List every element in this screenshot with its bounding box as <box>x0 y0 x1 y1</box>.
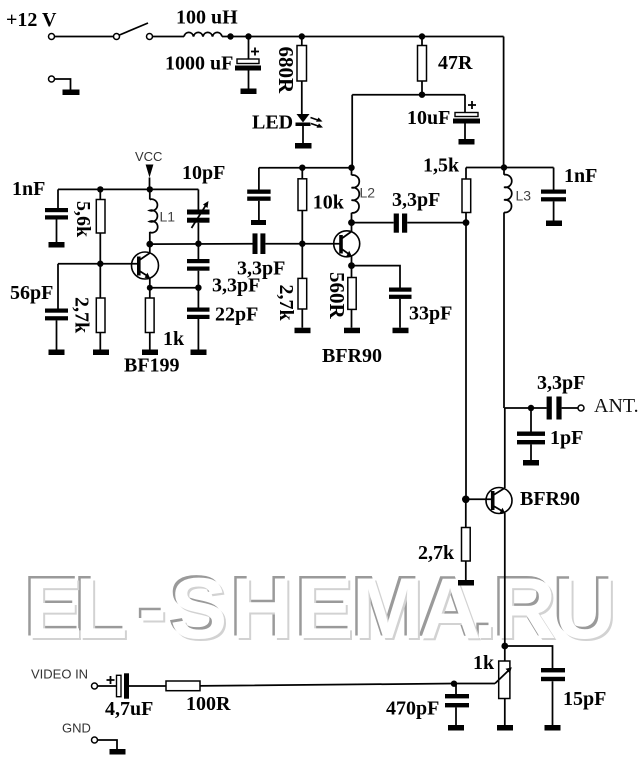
node 1000uF top <box>245 33 251 39</box>
capacitor 3,3pF series coupling <box>253 233 258 254</box>
node emitter Q2 <box>348 262 355 269</box>
svg-text:1,5k: 1,5k <box>423 155 460 177</box>
watermark EL-SHEMA.RU <box>23 559 619 660</box>
ground under 470pF <box>448 725 464 731</box>
wire down to left rail <box>351 95 353 168</box>
capacitor decoupling (unlabeled) <box>258 168 260 190</box>
ground under 10uF <box>459 139 475 145</box>
transistor Q3 BFR90 output <box>486 488 512 514</box>
svg-text:EL-SHEMA.RU: EL-SHEMA.RU <box>25 561 616 657</box>
svg-text:22pF: 22pF <box>215 304 258 326</box>
wire to ANT terminal <box>562 407 578 409</box>
resistor 560R <box>348 278 356 310</box>
svg-text:3,3pF: 3,3pF <box>212 275 260 297</box>
wire main rail right corner down <box>503 37 505 168</box>
svg-text:680R: 680R <box>274 47 298 95</box>
transistor Q1 BF199 <box>132 252 159 279</box>
wire VCC rail <box>58 188 198 190</box>
svg-text:LED: LED <box>252 112 293 134</box>
svg-text:L1: L1 <box>160 209 176 225</box>
svg-text:100 uH: 100 uH <box>176 7 238 29</box>
terminal GND <box>92 737 98 743</box>
node emitter tap <box>147 285 153 291</box>
node 1pF tap <box>528 405 534 411</box>
svg-text:BF199: BF199 <box>124 355 180 377</box>
node after inductor <box>227 33 233 39</box>
ground 0V <box>63 90 80 96</box>
capacitor 33pF <box>352 266 401 288</box>
wire 680R to LED <box>301 81 303 114</box>
svg-text:560R: 560R <box>325 272 349 320</box>
ground under 1pF <box>523 460 539 466</box>
wire video line <box>200 684 495 686</box>
ground under 22pF <box>191 350 207 356</box>
ground under 15pF <box>545 725 561 731</box>
node 470pF tap <box>451 681 457 687</box>
svg-text:L2: L2 <box>360 185 376 201</box>
terminal ANT <box>578 405 584 411</box>
inductor L3 <box>503 168 505 175</box>
ground under decoupling cap <box>251 220 266 225</box>
node 47R top <box>419 33 425 39</box>
capacitor 15pF <box>541 668 565 672</box>
ground under 2,7k left <box>93 350 109 356</box>
node collector Q2 <box>348 219 355 226</box>
svg-text:470pF: 470pF <box>386 698 439 720</box>
svg-text:BFR90: BFR90 <box>322 345 382 367</box>
capacitor 22pF <box>187 308 210 312</box>
svg-text:VCC: VCC <box>135 149 162 164</box>
wire right supply rail <box>466 167 554 169</box>
wire emitter to divider tap <box>150 287 199 289</box>
LED D1 <box>297 114 310 123</box>
resistor 5,6k <box>99 189 101 199</box>
capacitor 56pF <box>57 264 59 309</box>
ground under 1nF right <box>546 221 562 227</box>
wire to 100R <box>129 685 166 687</box>
node 5,6k top <box>97 186 103 192</box>
wire top rail <box>222 36 504 38</box>
svg-text:56pF: 56pF <box>10 282 53 304</box>
wire to 4,7uF <box>98 685 117 687</box>
potentiometer 1k <box>504 646 506 661</box>
svg-text:L3: L3 <box>516 188 532 204</box>
capacitor 1nF left <box>57 189 59 208</box>
capacitor 3,3pF collector out <box>394 214 399 233</box>
wire LED to ground <box>302 126 304 143</box>
svg-text:1000 uF: 1000 uF <box>165 53 233 75</box>
resistor 100R <box>166 681 200 691</box>
svg-text:1k: 1k <box>163 328 185 350</box>
svg-text:2,7k: 2,7k <box>71 297 93 334</box>
switch S1 <box>114 34 120 40</box>
wire switch to inductor <box>153 36 185 38</box>
svg-text:10k: 10k <box>313 192 345 214</box>
capacitor 1nF right <box>553 168 555 190</box>
wire coupling to base <box>265 243 341 245</box>
resistor 2,7k left <box>99 264 101 298</box>
resistor 1,5k <box>465 168 467 180</box>
svg-text:1nF: 1nF <box>12 178 45 200</box>
wire collector out <box>352 222 394 224</box>
svg-text:2,7k: 2,7k <box>418 542 455 564</box>
node L3 top <box>501 164 507 170</box>
resistor 10k <box>301 168 303 179</box>
node emitter Q3 <box>501 643 508 650</box>
svg-text:15pF: 15pF <box>563 688 606 710</box>
wire antenna line <box>505 407 547 409</box>
svg-text:10uF: 10uF <box>407 107 450 129</box>
node 1,5k bottom <box>463 219 470 226</box>
capacitor 10uF <box>464 95 466 113</box>
VCC arrow <box>146 165 154 178</box>
svg-text:10pF: 10pF <box>182 162 225 184</box>
node base divider <box>299 241 305 247</box>
inductor 100 uH <box>184 32 222 36</box>
wire down to Q3 base <box>465 223 467 500</box>
ground under 2,7k divider <box>295 328 311 334</box>
resistor 2,7k base pulldown <box>465 499 467 527</box>
ground GND <box>110 749 126 755</box>
node VCC/L1 <box>147 186 153 192</box>
node L1 bottom <box>146 241 153 248</box>
svg-text:1k: 1k <box>473 652 495 674</box>
svg-text:GND: GND <box>62 721 91 736</box>
wire base Q1 <box>58 263 139 265</box>
terminal VIDEO IN <box>92 683 98 689</box>
resistor 680R <box>301 37 303 46</box>
resistor 1k <box>145 298 154 333</box>
capacitor 4,7uF <box>117 675 122 696</box>
svg-text:BFR90: BFR90 <box>520 488 580 510</box>
svg-text:ANT.: ANT. <box>594 395 639 417</box>
ground under 33pF <box>393 328 409 334</box>
ground under 1k pot <box>497 725 513 731</box>
capacitor 1pF <box>530 408 532 432</box>
svg-text:1nF: 1nF <box>564 165 597 187</box>
ground under 1000uF <box>241 89 257 95</box>
terminal +12V <box>49 34 55 40</box>
inductor L2 <box>351 168 353 176</box>
node L2 top <box>348 165 354 171</box>
resistor 2,7k divider <box>301 244 303 279</box>
node 10k top <box>299 165 305 171</box>
svg-text:2,7k: 2,7k <box>275 285 297 322</box>
svg-text:47R: 47R <box>438 52 473 74</box>
node Q3 base <box>462 496 470 504</box>
capacitor 3,3pF divider <box>197 244 199 259</box>
wire 47R bottom tee <box>352 94 465 96</box>
node cap divider tap <box>195 285 201 291</box>
ground under 56pF <box>49 350 65 356</box>
node 47R bottom <box>419 92 425 98</box>
ground under 2,7k pulldown <box>458 580 474 586</box>
wire terminal to switch <box>55 36 114 38</box>
svg-text:1pF: 1pF <box>550 427 583 449</box>
ground under 1k <box>142 350 158 356</box>
svg-text:33pF: 33pF <box>409 303 452 325</box>
ground under 560R <box>344 328 360 334</box>
transistor Q2 BFR90 <box>334 231 360 257</box>
svg-text:VIDEO IN: VIDEO IN <box>31 667 88 682</box>
capacitor 3,3pF antenna <box>547 397 552 420</box>
capacitor 470pF <box>455 684 457 694</box>
wire 0V terminal <box>55 79 71 90</box>
capacitor 1000 uF <box>248 37 250 60</box>
wire emitter to 15pF <box>505 646 553 668</box>
wire GND terminal <box>98 740 118 749</box>
svg-text:4,7uF: 4,7uF <box>105 698 153 720</box>
wire tank to base Q2 <box>150 243 253 245</box>
inductor L1 <box>149 189 151 199</box>
ground under 1nF left <box>49 242 65 248</box>
svg-text:5,6k: 5,6k <box>72 201 94 238</box>
resistor 47R <box>421 37 423 46</box>
wire left decoupled rail <box>259 167 352 169</box>
node base/5,6k <box>97 261 103 267</box>
svg-text:3,3pF: 3,3pF <box>392 189 440 211</box>
node 680R top <box>299 33 305 39</box>
ground under LED <box>295 143 312 149</box>
svg-text:100R: 100R <box>186 693 231 715</box>
terminal 0V <box>49 76 55 82</box>
wire to 1,5k bottom <box>407 222 466 224</box>
svg-text:3,3pF: 3,3pF <box>537 372 585 394</box>
node trimmer bottom <box>195 241 201 247</box>
trimmer capacitor 10pF <box>197 189 199 209</box>
svg-text:+12 V: +12 V <box>6 9 57 31</box>
